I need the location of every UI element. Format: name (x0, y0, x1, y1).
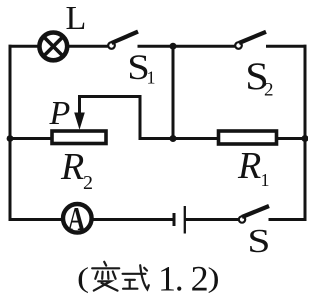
svg-text:1: 1 (261, 170, 270, 190)
svg-text:1: 1 (158, 258, 176, 296)
svg-text:A: A (68, 202, 85, 239)
svg-text:.: . (175, 258, 184, 296)
svg-text:2: 2 (191, 258, 209, 296)
svg-text:2: 2 (83, 172, 93, 194)
svg-text:2: 2 (264, 80, 274, 101)
svg-text:(: ( (77, 262, 89, 294)
svg-text:1: 1 (147, 68, 156, 88)
svg-text:): ) (208, 262, 220, 294)
svg-text:S: S (247, 222, 270, 260)
svg-text:R: R (237, 145, 261, 187)
svg-text:P: P (49, 95, 71, 132)
svg-text:L: L (66, 0, 87, 37)
svg-text:R: R (60, 146, 84, 188)
